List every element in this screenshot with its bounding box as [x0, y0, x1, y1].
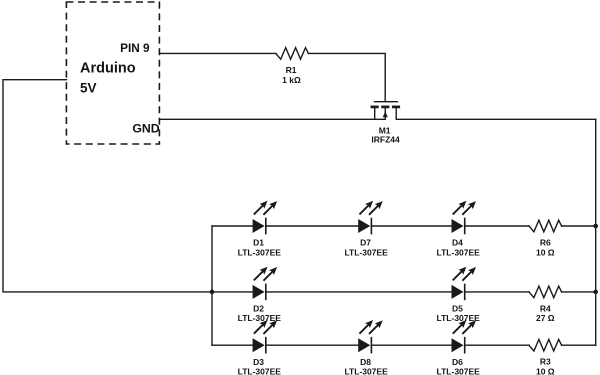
wire row3 segment c: [371, 344, 451, 346]
resistor R1: [276, 48, 309, 60]
Arduino box: [66, 2, 159, 144]
svg-text:27 Ω: 27 Ω: [536, 313, 555, 323]
LED D1: [253, 201, 278, 234]
wire row2 segment c: [465, 291, 529, 293]
svg-text:R6: R6: [540, 237, 551, 247]
wire row2 segment b: [266, 291, 452, 293]
svg-text:D7: D7: [360, 238, 371, 248]
wire row1 segment c: [371, 225, 451, 227]
LED D6: [452, 320, 477, 353]
svg-text:D2: D2: [253, 304, 264, 314]
svg-text:10 Ω: 10 Ω: [536, 367, 555, 375]
resistor R4: [529, 286, 562, 298]
wire row3 segment a: [212, 344, 253, 346]
svg-text:IRFZ44: IRFZ44: [371, 135, 400, 145]
svg-text:5V: 5V: [80, 81, 97, 96]
node right junction row2: [593, 290, 598, 295]
LED D4: [452, 201, 477, 234]
svg-text:LTL-307EE: LTL-307EE: [344, 367, 388, 375]
svg-text:10 Ω: 10 Ω: [536, 247, 555, 257]
svg-text:R4: R4: [540, 303, 551, 313]
wire row1 segment e: [562, 225, 596, 227]
svg-text:D6: D6: [452, 357, 463, 367]
wire row2 segment a: [212, 291, 253, 293]
wire M1 drain to right rail: [396, 118, 596, 120]
svg-text:PIN 9: PIN 9: [120, 41, 150, 55]
svg-text:D4: D4: [452, 238, 463, 248]
wire row1 segment b: [266, 225, 358, 227]
svg-text:R3: R3: [540, 357, 551, 367]
LED D5: [452, 267, 477, 300]
wire PIN9 to R1: [159, 52, 275, 54]
svg-text:R1: R1: [286, 65, 297, 75]
wire right rail: [595, 119, 597, 345]
svg-text:LTL-307EE: LTL-307EE: [437, 247, 481, 257]
svg-text:GND: GND: [132, 121, 159, 135]
svg-text:Arduino: Arduino: [80, 61, 136, 77]
wire row3 segment e: [562, 344, 596, 346]
wire left rail: [211, 226, 213, 345]
svg-text:LTL-307EE: LTL-307EE: [344, 247, 388, 257]
svg-text:LTL-307EE: LTL-307EE: [238, 367, 282, 375]
resistor R6: [529, 220, 562, 232]
LED D7: [358, 201, 383, 234]
wire R1 to gate: [308, 53, 385, 101]
wire row1 segment a: [212, 225, 253, 227]
transistor M1: [371, 102, 401, 120]
svg-text:D1: D1: [253, 238, 264, 248]
wire row1 segment d: [465, 225, 529, 227]
LED D3: [253, 320, 278, 353]
node right junction row1: [593, 224, 598, 229]
wire GND to M1 source: [159, 118, 385, 120]
LED D2: [253, 267, 278, 300]
LED D8: [358, 320, 383, 353]
wire row3 segment b: [266, 344, 358, 346]
resistor R3: [529, 339, 562, 351]
svg-text:LTL-307EE: LTL-307EE: [437, 367, 481, 375]
svg-text:D3: D3: [253, 357, 264, 367]
node left junction: [210, 290, 215, 295]
svg-text:D5: D5: [452, 304, 463, 314]
wire row2 segment d: [562, 291, 596, 293]
svg-text:LTL-307EE: LTL-307EE: [238, 247, 282, 257]
svg-text:D8: D8: [360, 357, 371, 367]
wire 5V feed: [3, 80, 212, 292]
wire row3 segment d: [465, 344, 529, 346]
svg-text:1 kΩ: 1 kΩ: [282, 75, 301, 85]
